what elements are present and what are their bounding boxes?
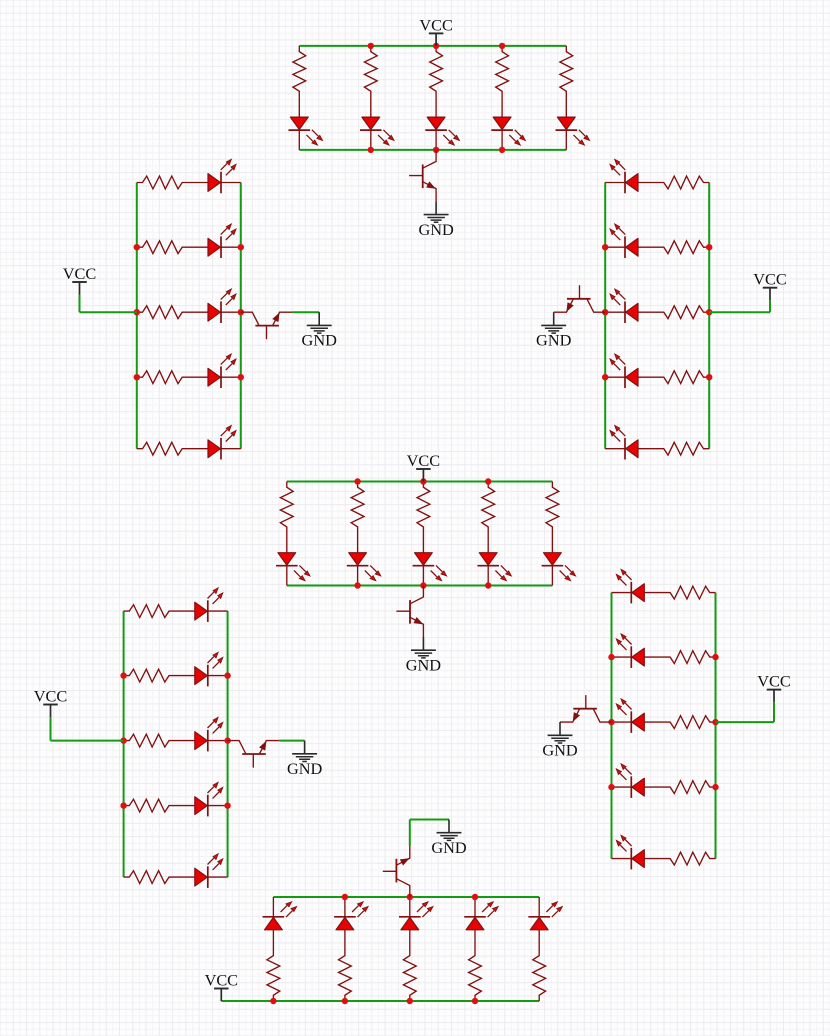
node top cathode rail junction four [499, 147, 505, 153]
resistor and LED, bottom bank column two [334, 897, 368, 1001]
node lower-right cathode rail junction four [608, 784, 614, 790]
ground, lower-right emitter [542, 722, 578, 759]
resistor and LED, lower-right bank row two [612, 634, 716, 668]
node upper-left cathode rail junction four [238, 374, 244, 380]
resistor and LED, top bank column four [491, 46, 525, 150]
power VCC terminal, lower-right bank [757, 672, 790, 703]
node middle rail junction four [485, 478, 491, 484]
resistor and LED, lower-left bank row two [124, 652, 228, 686]
ground, lower-left emitter [287, 741, 323, 778]
node upper-left cathode rail junction two [238, 244, 244, 250]
node bottom VCC rail junction four [472, 998, 478, 1004]
resistor and LED, lower-left bank row five [124, 854, 228, 888]
node lower-left cathode rail junction two [224, 672, 230, 678]
node top rail junction two [368, 43, 374, 49]
resistor and LED, upper-right bank row four [605, 354, 709, 388]
node bottom cathode rail junction three [407, 894, 413, 900]
wire lower-left cathode rail [227, 611, 229, 877]
node lower-left cathode rail junction four [224, 802, 230, 808]
node lower-right cathode rail junction two [608, 654, 614, 660]
node lower-right cathode rail junction three [608, 719, 614, 725]
transistor Q lower-right driver (NPN) [560, 695, 612, 722]
resistor and LED, lower-right bank row three [612, 699, 716, 733]
resistor and LED, lower-right bank row one [612, 569, 716, 603]
wire upper-left VCC feed [80, 311, 137, 313]
resistor and LED, upper-right bank row one [605, 159, 709, 193]
node upper-left anode rail junction two [134, 244, 140, 250]
resistor and LED, top bank column five [556, 46, 590, 150]
resistor and LED, middle bank column four [477, 482, 511, 586]
wire middle-bank VCC rail [287, 481, 553, 483]
node top rail junction three [433, 43, 439, 49]
node top rail junction four [499, 43, 505, 49]
node upper-left anode rail junction four [134, 374, 140, 380]
power VCC terminal, upper-right bank [753, 270, 786, 301]
node lower-right anode rail junction three [712, 719, 718, 725]
wire lower-left anode rail [123, 611, 125, 877]
node lower-right anode rail junction four [712, 784, 718, 790]
ground, upper-right emitter [536, 312, 572, 349]
resistor and LED, lower-right bank row four [612, 764, 716, 798]
transistor Q upper-left driver (NPN) [241, 312, 292, 339]
power VCC terminal, bottom bank [205, 970, 238, 1001]
wire bottom emitter to ground riser [409, 820, 411, 846]
node lower-left anode rail junction three [120, 737, 126, 743]
node upper-left cathode rail junction three [238, 309, 244, 315]
resistor and LED, lower-left bank row four [124, 782, 228, 816]
wire upper-right cathode rail [604, 183, 606, 449]
wire middle-bank cathode rail [287, 585, 553, 587]
wire bottom ground link [410, 819, 449, 821]
wire lower-right cathode rail [611, 593, 613, 859]
power VCC terminal, upper-left bank [63, 264, 96, 295]
transistor Q top-bank driver (NPN) [409, 150, 436, 202]
resistor and LED, upper-left bank row four [137, 354, 241, 388]
node middle rail junction three [420, 478, 426, 484]
resistor and LED, bottom bank column one [263, 897, 297, 1001]
wire upper-right VCC feed [709, 311, 770, 313]
wire upper-left cathode rail [240, 183, 242, 449]
node top cathode rail junction two [368, 147, 374, 153]
resistor and LED, lower-left bank row three [124, 717, 228, 751]
wire lower-left VCC drop [50, 717, 52, 741]
node upper-left anode rail junction three [134, 309, 140, 315]
resistor and LED, upper-right bank row two [605, 224, 709, 258]
node bottom VCC rail junction three [407, 998, 413, 1004]
resistor and LED, upper-left bank row one [137, 159, 241, 193]
wire lower-left emitter to ground [279, 740, 305, 742]
node top cathode rail junction three [433, 147, 439, 153]
transistor Q middle-bank driver (NPN) [396, 586, 423, 638]
wire bottom-bank VCC rail [221, 1000, 539, 1002]
node middle cathode rail junction two [354, 582, 360, 588]
resistor and LED, top bank column one [289, 46, 323, 150]
resistor and LED, middle bank column one [276, 482, 310, 586]
ground, bottom bank emitter [431, 820, 467, 857]
node lower-left cathode rail junction three [224, 737, 230, 743]
resistor and LED, bottom bank column three [399, 897, 433, 1001]
node lower-right anode rail junction two [712, 654, 718, 660]
transistor Q bottom-bank driver (NPN) [383, 846, 410, 898]
wire top-bank VCC rail [299, 45, 566, 47]
wire top-bank cathode rail [299, 149, 566, 151]
resistor and LED, lower-right bank row five [612, 835, 716, 869]
node upper-right cathode rail junction four [602, 374, 608, 380]
resistor and LED, upper-right bank row three [605, 289, 709, 323]
resistor and LED, top bank column two [360, 46, 394, 150]
ground, top bank emitter [418, 201, 454, 238]
wire lower-right VCC feed [716, 721, 775, 723]
resistor and LED, top bank column three [425, 46, 459, 150]
transistor Q upper-right driver (NPN) [554, 285, 606, 312]
node middle cathode rail junction four [485, 582, 491, 588]
resistor and LED, middle bank column two [347, 482, 381, 586]
node upper-right cathode rail junction three [602, 309, 608, 315]
wire upper-right anode rail [708, 183, 710, 449]
node bottom VCC rail junction one [270, 998, 276, 1004]
wire upper-left anode rail [136, 183, 138, 449]
node bottom cathode rail junction two [342, 894, 348, 900]
wire upper-left VCC drop [79, 295, 81, 313]
ground, upper-left emitter [302, 312, 338, 349]
node upper-right anode rail junction two [706, 244, 712, 250]
power VCC terminal, middle bank [407, 451, 440, 482]
resistor and LED, upper-left bank row three [137, 289, 241, 323]
node middle cathode rail junction three [420, 582, 426, 588]
wire upper-right VCC drop [769, 300, 771, 312]
resistor and LED, lower-left bank row one [124, 588, 228, 622]
node lower-left anode rail junction two [120, 672, 126, 678]
resistor and LED, middle bank column five [542, 482, 576, 586]
wire lower-left VCC feed [51, 740, 124, 742]
node upper-right anode rail junction four [706, 374, 712, 380]
resistor and LED, upper-left bank row five [137, 426, 241, 460]
wire upper-left emitter to ground [292, 311, 319, 313]
node upper-right anode rail junction three [706, 309, 712, 315]
power VCC terminal, top bank [419, 15, 452, 46]
resistor and LED, middle bank column three [413, 482, 447, 586]
wire lower-right anode rail [715, 593, 717, 859]
wire bottom-bank cathode rail [273, 896, 539, 898]
ground, middle bank emitter [406, 637, 442, 674]
power VCC terminal, lower-left bank [34, 686, 67, 717]
resistor and LED, upper-right bank row five [605, 426, 709, 460]
node lower-left anode rail junction four [120, 802, 126, 808]
resistor and LED, bottom bank column four [464, 897, 498, 1001]
node bottom cathode rail junction four [472, 894, 478, 900]
node bottom VCC rail junction two [342, 998, 348, 1004]
node middle rail junction two [354, 478, 360, 484]
node upper-right cathode rail junction two [602, 244, 608, 250]
resistor and LED, bottom bank column five [528, 897, 562, 1001]
resistor and LED, upper-left bank row two [137, 224, 241, 258]
transistor Q lower-left driver (NPN) [228, 741, 280, 768]
wire lower-right VCC drop [773, 702, 775, 722]
